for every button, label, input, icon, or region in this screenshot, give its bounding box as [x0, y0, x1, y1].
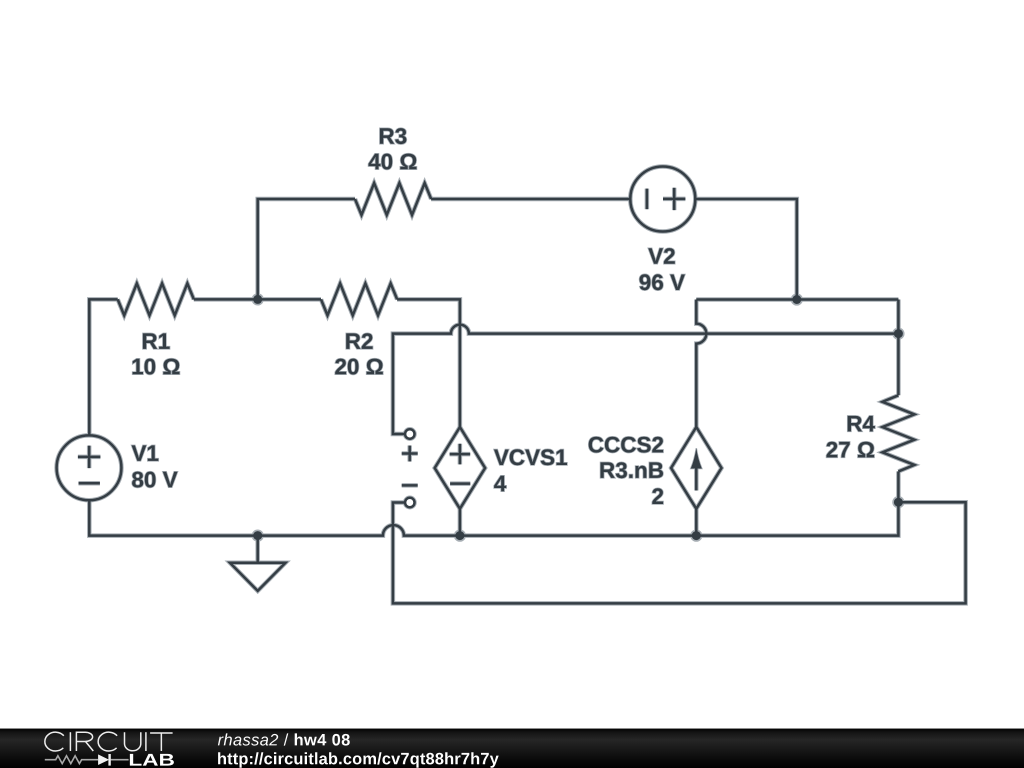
wire top right row through node B [696, 298, 898, 301]
resistor R4 [882, 395, 914, 471]
node C junction dot [894, 329, 903, 338]
resistor R1 [118, 283, 194, 315]
terminal VCVS1 minus [405, 498, 414, 507]
VCVS1 minus sign [450, 482, 470, 485]
wire VCVS1 bottom stem [459, 509, 462, 536]
label R4 value [827, 442, 875, 458]
terminal VCVS1 plus [405, 429, 414, 438]
label V2 value [640, 274, 685, 290]
wire right column to R4 top [897, 300, 900, 396]
logo diode [98, 754, 109, 765]
label R3 [380, 128, 407, 144]
label V1 [132, 445, 159, 461]
label V1 value [132, 472, 177, 488]
VCVS1 plus sign [450, 444, 471, 465]
label R1 value [133, 359, 180, 375]
label R4 [848, 416, 875, 432]
V2 plus sign [663, 188, 685, 210]
VCVS1 bottom junction dot [455, 531, 464, 540]
terminal minus sign [402, 484, 418, 487]
ground stem [256, 536, 259, 563]
node B junction dot [792, 295, 801, 304]
soft edge underlay [57, 128, 966, 603]
wire V1 top to R1 left [89, 299, 117, 435]
footer bar [0, 729, 1024, 768]
wire R3 right to V2 [431, 198, 630, 201]
cccs CCCS2 diamond [671, 427, 721, 509]
terminal plus sign [402, 446, 418, 462]
label VCVS1 [494, 449, 567, 465]
label R3 value [369, 154, 417, 170]
voltage source V2 [630, 167, 695, 232]
wire R2 right down to VCVS1 top [397, 299, 460, 427]
CCCS2 bottom junction dot [692, 531, 701, 540]
V1 minus sign [79, 482, 100, 485]
wire R4 bottom to node G [897, 471, 900, 502]
label R2 value [335, 359, 383, 375]
V1 plus sign [78, 446, 101, 469]
logo LAB text [130, 754, 174, 766]
voltage source V1 [57, 435, 122, 500]
wire CCCS2 bottom stem [695, 509, 698, 536]
label CCCS2 value [652, 488, 663, 504]
ground junction dot [253, 531, 262, 540]
CCCS2 arrow shaft [695, 465, 698, 491]
wire VCVS1 lower terminal loop to node G [393, 502, 966, 603]
label CCCS2 [589, 437, 663, 453]
resistor R3 [355, 183, 431, 215]
label R2 [346, 333, 372, 349]
wire R1 right to node A [194, 298, 258, 301]
wire CCCS2 column with hop over mid row [696, 300, 706, 428]
label VCVS1 value [494, 476, 506, 492]
label CCCS2 source [601, 462, 664, 478]
vcvs VCVS1 diamond [435, 427, 485, 509]
footer url text [218, 752, 499, 767]
node G junction dot [894, 498, 903, 507]
label R1 [143, 333, 170, 349]
V2 minus bar [646, 189, 649, 210]
resistor R2 [321, 283, 397, 315]
wire VCVS1 upper terminal via mid row to node C [393, 325, 899, 434]
CCCS2 arrow head [691, 448, 702, 468]
label V2 [648, 248, 675, 264]
node A junction dot [253, 295, 262, 304]
wire node A up to R3 left [258, 199, 355, 299]
logo CIRCUIT wordmark [45, 732, 173, 751]
logo resistor glyph [45, 756, 129, 764]
wire V2 right down to node B [695, 199, 797, 300]
wire node A to R2 left [258, 298, 321, 301]
footer title text [218, 733, 350, 745]
ground [230, 563, 286, 591]
wire bottom row [89, 501, 898, 536]
